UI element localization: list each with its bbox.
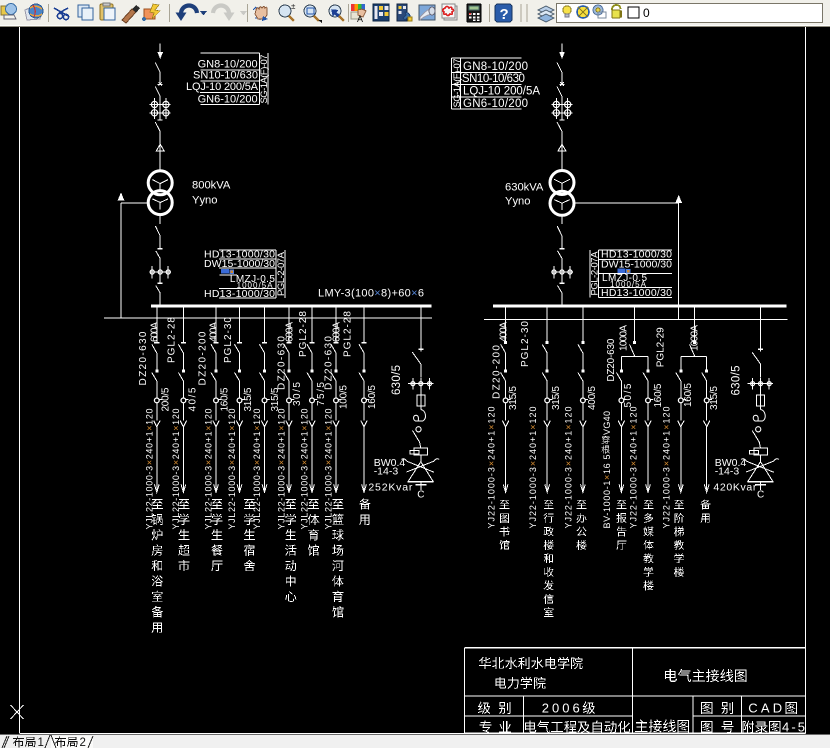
toolbar separator [489, 4, 491, 22]
svg-text:0: 0 [643, 6, 650, 20]
feeder RF2 mid arrow [544, 421, 550, 427]
feeder RF4L end arrow [619, 484, 624, 492]
feeder F5 switch blade [260, 373, 265, 399]
feeder RF2 cable label [528, 407, 538, 529]
LV disconnector QS4 T2 side [557, 215, 562, 248]
svg-text:A: A [357, 14, 363, 24]
svg-text:PGL2-30: PGL2-30 [223, 317, 234, 363]
feeder F9 switch contact dot [363, 369, 366, 372]
feeder F4 switch contact dot [238, 369, 241, 372]
svg-text:CAD: CAD [748, 700, 782, 715]
feeder RF5R destination label 备用 [700, 499, 710, 523]
svg-text:YJL22-1000-3×240+1×120: YJL22-1000-3×240+1×120 [171, 409, 181, 530]
box2 text HD13-1000/30 [204, 249, 275, 261]
feeder F4 breaker QF contact [237, 342, 242, 344]
feeder RF1 cable label [486, 407, 496, 529]
equipment table box4 rows [590, 250, 672, 298]
svg-text:YJL22-1000-3×240+1×120: YJL22-1000-3×240+1×120 [204, 409, 214, 530]
box4 cabinet id PGL-2-07A [589, 251, 600, 296]
feeder F3 breaker blade [211, 344, 216, 369]
feeder RF4L switch blade [616, 373, 621, 399]
feeder F2 destination label 至学生超市 [178, 499, 190, 571]
svg-text:YJ22-1000-3×240+1×120: YJ22-1000-3×240+1×120 [629, 407, 639, 529]
feeder F1 breaker QF contact [154, 342, 159, 344]
feeder F8 end arrow [334, 484, 339, 492]
feeder F3 cable wire [215, 426, 217, 490]
svg-text:160/5: 160/5 [220, 387, 231, 411]
feeder F6 destination label 至学生活动中心 [285, 499, 296, 602]
capacitor feeder C2 drop [758, 307, 763, 351]
feeder RF1 breaker label DZ20-200 [491, 345, 502, 399]
feeder RF4R cable label [629, 407, 639, 529]
surge arrester F T2 side [558, 144, 566, 171]
capacitor C2 label -14-3 [715, 465, 740, 477]
feeder F4 cable label [227, 409, 237, 530]
feeder F5 cable label [252, 409, 262, 530]
feeder F5 breaker blade [260, 344, 265, 369]
feeder RF1 drop wire [505, 307, 507, 342]
box2 text LMZJ-0.5 [230, 274, 275, 285]
feeder RF1 CT ratio label [508, 386, 519, 410]
svg-text:YJ22-1000-3×240+1×120: YJ22-1000-3×240+1×120 [528, 407, 538, 529]
feeder RF2 destination label 至行政楼和收发信室 [544, 500, 554, 617]
box3 text LQJ-10 200/5A [463, 85, 540, 97]
svg-text:VG40: VG40 [602, 411, 612, 435]
feeder RF5L cable wire [680, 426, 682, 490]
feeder RF4L outgoing wire [620, 403, 622, 421]
feeder RF1 mid arrow [502, 421, 508, 427]
capacitor C1 label -14-3 [374, 465, 399, 477]
cell label figure number [701, 721, 733, 733]
cell label figure type [701, 702, 733, 714]
svg-text:DZ20-630: DZ20-630 [324, 336, 335, 390]
feeder F6 CT ring [287, 398, 295, 403]
feeder F8 mid arrow [333, 421, 339, 427]
feeder F2 switch blade [178, 373, 183, 399]
feeder F7 cable label [300, 409, 310, 530]
svg-text:2: 2 [80, 737, 86, 748]
feeder F7 switch contact dot [311, 369, 314, 372]
capacitor C2 plates [755, 482, 766, 490]
feeder F1 CT ring [154, 398, 162, 403]
toolbar dropdown2 [240, 11, 247, 16]
feeder F8 rating label 600A [332, 322, 343, 342]
feeder F9 drop wire [363, 307, 365, 342]
svg-text:SN10-10/630: SN10-10/630 [462, 73, 525, 85]
box1 text SN10-10/630 [193, 70, 258, 82]
feeder F4 destination label 至学生宿舍 [244, 499, 255, 571]
feeder RF4R outgoing wire [647, 403, 649, 421]
feeder F5 cable wire [264, 426, 266, 490]
feeder RF5R end arrow [704, 484, 709, 492]
feeder RF5 breaker blade [690, 345, 695, 357]
feeder F7 drop wire [311, 307, 313, 342]
capacitor feeder C1 contactor blade [413, 427, 422, 448]
svg-text:YJL22-1000-3×240+1×120: YJL22-1000-3×240+1×120 [300, 409, 310, 530]
feeder RF1 end arrow [503, 484, 508, 492]
feeder F3 CT ring [214, 398, 222, 403]
capacitor feeder C1 CT group [408, 378, 434, 390]
feeder RF3 end arrow [581, 484, 586, 492]
feeder F7 end arrow [310, 484, 315, 492]
feeder F8 breaker label DZ20-630 [324, 336, 335, 390]
feeder F3 CT ratio label [220, 387, 231, 411]
feeder RF2 breaker QF contact [546, 341, 549, 344]
incoming line T1 side [159, 44, 161, 54]
feeder F6 mid arrow [286, 421, 292, 427]
toolbar grip [521, 4, 527, 22]
feeder RF5R mid arrow [704, 421, 710, 427]
feeder F8 breaker QF contact [333, 342, 338, 344]
feeder RF4R mid arrow [645, 421, 651, 427]
feeder RF5R CT ring [704, 398, 712, 403]
feeder F4 breaker label PGL2-30 [223, 317, 234, 363]
svg-text:HD13-1000/30: HD13-1000/30 [601, 287, 672, 299]
disconnector QS3 T2 side [557, 120, 565, 144]
feeder F3 switch blade [211, 373, 216, 399]
feeder F6 rating label 600A [285, 322, 296, 342]
feeder F1 destination label 至锅炉房和浴室备用 [152, 499, 164, 633]
feeder F8 CT ring [334, 398, 342, 403]
feeder F3 destination label 至学生餐厅 [211, 499, 222, 571]
toolbar icon zoom-realtime [279, 2, 296, 21]
svg-text:1000A: 1000A [619, 325, 630, 351]
feeder F6 end arrow [287, 484, 292, 492]
feeder RF5L end arrow [678, 484, 683, 492]
feeder F6 outgoing wire [288, 403, 290, 421]
feeder F6 CT ratio label [292, 382, 303, 406]
svg-text:DZ20-630: DZ20-630 [138, 331, 149, 385]
feeder RF5R cable wire [706, 426, 708, 490]
feeder RF3 breaker QF contact [581, 341, 584, 344]
feeder F4 breaker blade [235, 344, 240, 369]
svg-text:Yyno: Yyno [505, 196, 531, 208]
feeder F9 outgoing wire [363, 403, 365, 421]
LV disconnector QS6 T1 side [156, 283, 163, 305]
feeder RF3 switch blade [578, 373, 583, 399]
toolbar icon redo [213, 6, 235, 22]
LV disconnector QS5 T1 side [156, 249, 163, 266]
feeder F4 mid arrow [236, 421, 242, 427]
feeder F8 switch contact dot [335, 369, 338, 372]
box2 text HD13-1000/30 bottom [204, 288, 275, 300]
feeder F7 CT ring [310, 398, 318, 403]
feeder RF4L cable wire [620, 426, 622, 490]
feeder RF4 label DZ20-630 [606, 338, 617, 381]
toolbar icon copy [78, 5, 93, 20]
feeder RF2 end arrow [545, 484, 550, 492]
svg-text:C: C [417, 490, 424, 501]
feeder F7 CT ratio label [316, 382, 327, 406]
box1 text GN6-10/200 [198, 93, 258, 105]
svg-text:-14-3: -14-3 [715, 465, 740, 477]
box4 text HD13-1000/30 bottom [601, 287, 672, 299]
feeder RF3 CT ratio label [587, 386, 598, 410]
feeder RF1 rating label 400A [498, 321, 509, 341]
feeder F2 end arrow [181, 484, 186, 492]
status tab strip [0, 735, 830, 748]
feeder F5 switch contact dot [263, 369, 266, 372]
feeder F9 end arrow [362, 484, 367, 492]
title block grid lines [465, 648, 806, 733]
feeder RF2 breaker label PGL2-30 [520, 321, 531, 367]
svg-text:100/5: 100/5 [339, 385, 350, 409]
T1 neutral earthing conductor [118, 192, 150, 318]
svg-text:LQJ-10 200/5A: LQJ-10 200/5A [186, 81, 259, 93]
feeder RF2 CT ring [545, 398, 553, 403]
capacitor C1 label 252Kvar [368, 481, 413, 493]
feeder RF4 main drop [633, 307, 635, 342]
cell label major [480, 721, 511, 733]
surge arrester F T1 side [156, 144, 164, 171]
feeder F7 outgoing wire [311, 403, 313, 421]
toolbar icon help [495, 4, 512, 23]
feeder F3 switch contact dot [215, 369, 218, 372]
toolbar icon sheet-set [419, 5, 435, 20]
svg-text:YJ22-1000-3×240+1×120: YJ22-1000-3×240+1×120 [564, 407, 574, 529]
feeder F7 mid arrow [309, 421, 315, 427]
toolbar layer combobox [557, 4, 823, 23]
svg-text:PGL2-28: PGL2-28 [343, 311, 354, 357]
feeder F1 end arrow [154, 484, 159, 492]
box4 text DW15-1000/30 [601, 258, 672, 270]
toolbar separator [48, 4, 50, 22]
capacitor bank C2 delta symbol [747, 462, 773, 482]
feeder RF2 CT ratio label [551, 386, 562, 410]
toolbar icon publish-to-web [25, 4, 43, 20]
capacitor feeder C2 CT group [748, 378, 774, 390]
feeder F3 end arrow [214, 484, 219, 492]
capacitor feeder C1 switch blade [412, 352, 421, 377]
svg-text:420Kvar: 420Kvar [713, 481, 757, 493]
svg-text:630/5: 630/5 [391, 365, 403, 395]
box2 cabinet id PGL-2-07A [276, 251, 287, 296]
feeder RF5L cable label [662, 407, 672, 529]
toolbar icon pan [253, 7, 268, 22]
feeder RF5L destination label 至阶梯教学楼 [674, 500, 684, 577]
svg-text:600A: 600A [149, 322, 160, 342]
svg-text:400A: 400A [209, 322, 220, 342]
box4 OLE artifact glyph [618, 268, 631, 273]
disconnector QS2 T2 side [557, 82, 565, 101]
feeder RF4L destination label 至报告厅 [616, 500, 626, 550]
svg-text:PGL2-29: PGL2-29 [656, 327, 667, 367]
toolbar icon undo [176, 6, 198, 22]
feeder RF3 cable wire [582, 426, 584, 490]
toolbar icon designcenter [373, 4, 389, 21]
capacitor feeder C1 thermal relay box [410, 448, 428, 455]
capacitor feeder C2 fuse FU [757, 390, 765, 410]
svg-text:400/5: 400/5 [587, 386, 598, 410]
feeder F7 breaker label PGL2-28 [298, 311, 309, 357]
capacitor C1 label C [417, 490, 424, 501]
feeder F6 breaker QF contact [286, 342, 291, 344]
feeder F9 switch blade [359, 373, 364, 399]
feeder RF5R outgoing wire [706, 403, 708, 421]
incoming arrow T2 side [559, 53, 564, 60]
feeder F1 mid arrow [154, 421, 160, 427]
transformer T2 circles [550, 171, 574, 216]
capacitor feeder C1 fuse FU [417, 390, 425, 410]
layout tab edges [2, 735, 93, 748]
feeder RF2 breaker blade [542, 344, 547, 369]
feeder RF4L CT ratio label [623, 383, 634, 407]
feeder RF1 breaker blade [501, 344, 506, 369]
svg-text:±: ± [291, 2, 296, 11]
toolbar icon properties [351, 4, 366, 24]
feeder F1 drop wire [156, 307, 158, 342]
svg-text:160/5: 160/5 [683, 383, 694, 407]
drawing frame left border [19, 27, 21, 733]
feeder F7 destination label 至体育馆 [308, 499, 320, 556]
feeder RF4R panel label PGL2-29 [656, 327, 667, 367]
label T2 rating [505, 182, 544, 208]
feeder F5 mid arrow [261, 421, 267, 427]
toolbar icon markup [442, 4, 457, 20]
feeder F5 end arrow [262, 484, 267, 492]
svg-text:SN10-10/630: SN10-10/630 [193, 70, 258, 82]
svg-text:PGL2-28: PGL2-28 [167, 317, 178, 363]
feeder F6 breaker blade [284, 344, 289, 369]
capacitor feeder C2 connection to bank [760, 455, 762, 462]
toolbar icon zoom-previous [328, 5, 344, 21]
feeder RF4L mid arrow [618, 421, 624, 427]
feeder F8 destination label 至篮球场河体育馆 [332, 499, 344, 617]
feeder F2 breaker label PGL2-28 [167, 317, 178, 363]
svg-text:630/5: 630/5 [731, 366, 743, 396]
feeder RF3 breaker blade [578, 344, 583, 369]
feeder RF3 drop wire [582, 307, 584, 342]
feeder F2 CT ring [181, 398, 189, 403]
feeder F5 CT ring [262, 398, 270, 403]
capacitor C2 label BW0.4 [715, 457, 747, 469]
capacitor feeder C2 CT ratio label 630/5 [731, 366, 743, 396]
toolbar icon tool-palettes [397, 4, 412, 21]
svg-text:DZ20-630: DZ20-630 [277, 336, 288, 390]
transformer T1 wye symbols [152, 180, 168, 210]
feeder F1 switch blade [152, 373, 157, 399]
feeder F6 breaker label DZ20-630 [277, 336, 288, 390]
toolbar dropdown1 [200, 11, 207, 16]
toolbar background [0, 0, 830, 27]
svg-text:160/5: 160/5 [367, 385, 378, 409]
box4 text 1000/5A [610, 280, 647, 289]
capacitor feeder C1 contactor coil loop [414, 410, 426, 422]
equipment table box2 rows [219, 250, 285, 298]
feeder RF1 switch blade [501, 373, 506, 399]
cell value 2006 grade [542, 700, 595, 715]
svg-text:DW15-1000/30: DW15-1000/30 [204, 258, 275, 270]
feeder RF5R switch contact dot [705, 369, 708, 372]
svg-text:YJL22-1000-3×240+1×120: YJL22-1000-3×240+1×120 [252, 409, 262, 530]
toolbar icon calculator [467, 4, 481, 22]
feeder RF4L cable label BV-1000-1x16 5root-through VG40 [602, 411, 613, 529]
feeder F9 cable wire [363, 426, 365, 490]
svg-text:LMY-3(100×8)+60×6: LMY-3(100×8)+60×6 [318, 287, 424, 299]
cell value diagram type [635, 719, 689, 732]
feeder F2 switch contact dot [182, 369, 185, 372]
capacitor bank C1 crossed conductors [401, 459, 439, 473]
svg-text:4-5: 4-5 [782, 720, 805, 735]
svg-text:PGL-2-07A: PGL-2-07A [276, 251, 287, 296]
feeder F9 breaker blade [359, 344, 364, 369]
capacitor C2 label 420Kvar [713, 481, 757, 493]
toolbar icon apply-style [142, 4, 160, 21]
svg-text:PGL2-30: PGL2-30 [520, 321, 531, 367]
feeder RF4 breaker contact [633, 341, 636, 344]
capacitor feeder C1 CT ratio label 630/5 [391, 365, 403, 395]
feeder F9 destination label 备用 [359, 498, 371, 525]
feeder F7 cable wire [311, 426, 313, 490]
box3 text SN10-10/630 [462, 73, 525, 85]
feeder F3 mid arrow [213, 421, 219, 427]
svg-text:DW15-1000/30: DW15-1000/30 [601, 258, 672, 270]
LV disconnector QS4 T1 side [155, 215, 160, 249]
toolbar icon zoom-window [304, 5, 322, 23]
disconnector QS2 T1 side [155, 82, 163, 101]
svg-text:DZ20-200: DZ20-200 [491, 345, 502, 399]
feeder RF3 outgoing wire [582, 403, 584, 421]
tab label layout1 [13, 736, 44, 748]
svg-text:PGL2-28: PGL2-28 [298, 311, 309, 357]
title text school name [495, 677, 545, 689]
feeder RF4L CT ring [619, 398, 627, 403]
feeder F5 drop wire [264, 307, 266, 342]
toolbar separator [169, 4, 171, 22]
feeder RF5 breaker contact [693, 341, 696, 344]
svg-text:LQJ-10 200/5A: LQJ-10 200/5A [463, 85, 540, 97]
toolbar icon cut [54, 8, 69, 20]
current transformers TA (2x2) T1 side [150, 98, 171, 120]
incoming arrow T1 side [158, 53, 163, 60]
feeder RF3 CT ring [581, 398, 589, 403]
feeder F4 CT ratio label [243, 387, 254, 411]
capacitor feeder C1 connection to bank [420, 455, 422, 462]
svg-text:DZ20-630: DZ20-630 [606, 338, 617, 381]
svg-text:600A: 600A [285, 322, 296, 342]
feeder RF1 breaker QF contact [504, 341, 507, 344]
feeder F6 switch blade [284, 373, 289, 399]
svg-text:315/5: 315/5 [551, 386, 562, 410]
feeder F4 outgoing wire [239, 403, 241, 421]
disconnector QS3 T1 side [155, 120, 163, 144]
capacitor feeder C1 drop [418, 307, 423, 351]
feeder F6 cable label [277, 409, 287, 530]
tab label layout2 [55, 736, 86, 748]
feeder RF4R switch contact dot [647, 369, 650, 372]
svg-text:YJL22-1000-3×240+1×120: YJL22-1000-3×240+1×120 [277, 409, 287, 530]
box1 text GN8-10/200 [198, 59, 258, 71]
capacitor bank C1 delta symbol [408, 462, 434, 482]
svg-text:GN6-10/200: GN6-10/200 [463, 98, 528, 110]
svg-text:630kVA: 630kVA [505, 182, 544, 194]
feeder F2 outgoing wire [182, 403, 184, 421]
feeder F7 breaker blade [307, 344, 312, 369]
svg-text:800kVA: 800kVA [192, 180, 231, 192]
feeder RF3 switch contact dot [581, 369, 584, 372]
label T1 rating [192, 180, 231, 207]
cell value major name [525, 721, 630, 733]
LV disconnector QS6 T2 side [558, 283, 565, 305]
capacitor feeder C2 contactor coil loop [753, 410, 765, 422]
svg-text:315/5: 315/5 [709, 386, 720, 410]
feeder RF4R switch blade [643, 373, 648, 399]
svg-text:200/5: 200/5 [161, 387, 172, 411]
box2 OLE artifact glyph [221, 269, 234, 274]
T2 neutral earthing conductor [574, 195, 683, 319]
feeder F9 breaker label PGL2-28 [343, 311, 354, 357]
current transformers TA (2x2) T2 side [552, 98, 573, 120]
